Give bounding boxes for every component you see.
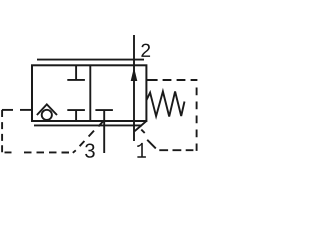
pilot line dash (diagonal from port 1: start mark) (141, 130, 144, 133)
blocked port T (left box, bottom) (67, 110, 85, 121)
leader line for port 1 label (135, 121, 147, 131)
pilot line dashes (left vertical) (1, 110, 3, 152)
pilot line dashes (bottom right horizontal) (159, 149, 193, 151)
check valve ball (42, 110, 52, 120)
pilot line dash (diagonal from port 1: main dash) (147, 140, 156, 149)
pilot line dashes (bottom left horizontal) (5, 151, 70, 153)
blocked port T (left box, top) (67, 65, 85, 80)
wire: pilot stub at left side (20, 109, 33, 111)
flow arrow (right box, 1 to 2) (131, 67, 138, 81)
pilot line dashes (top right horizontal to spring side) (147, 79, 198, 81)
blocked port T (right box, bottom) with port 3 stem (95, 110, 113, 153)
label port 3 (85, 144, 95, 158)
wire: port 2 / port 1 vertical line (133, 35, 135, 141)
spring (right side) (146, 92, 184, 117)
check valve stem to bottom edge (46, 120, 48, 121)
wire: port 2 working line (horizontal) (37, 59, 144, 61)
label port 2 (141, 44, 150, 57)
check valve seat (left box) (37, 104, 57, 115)
label port 1 (137, 143, 146, 158)
pilot line dash (left horizontal) (2, 109, 13, 111)
valve body (two position boxes) (32, 65, 146, 121)
pilot line dashes (diagonal up to port 3) (73, 121, 103, 153)
pilot line dashes (right vertical) (196, 88, 198, 151)
wire: port 1 working line (horizontal, below body) (34, 124, 142, 126)
wire: divider between position boxes (89, 65, 91, 121)
